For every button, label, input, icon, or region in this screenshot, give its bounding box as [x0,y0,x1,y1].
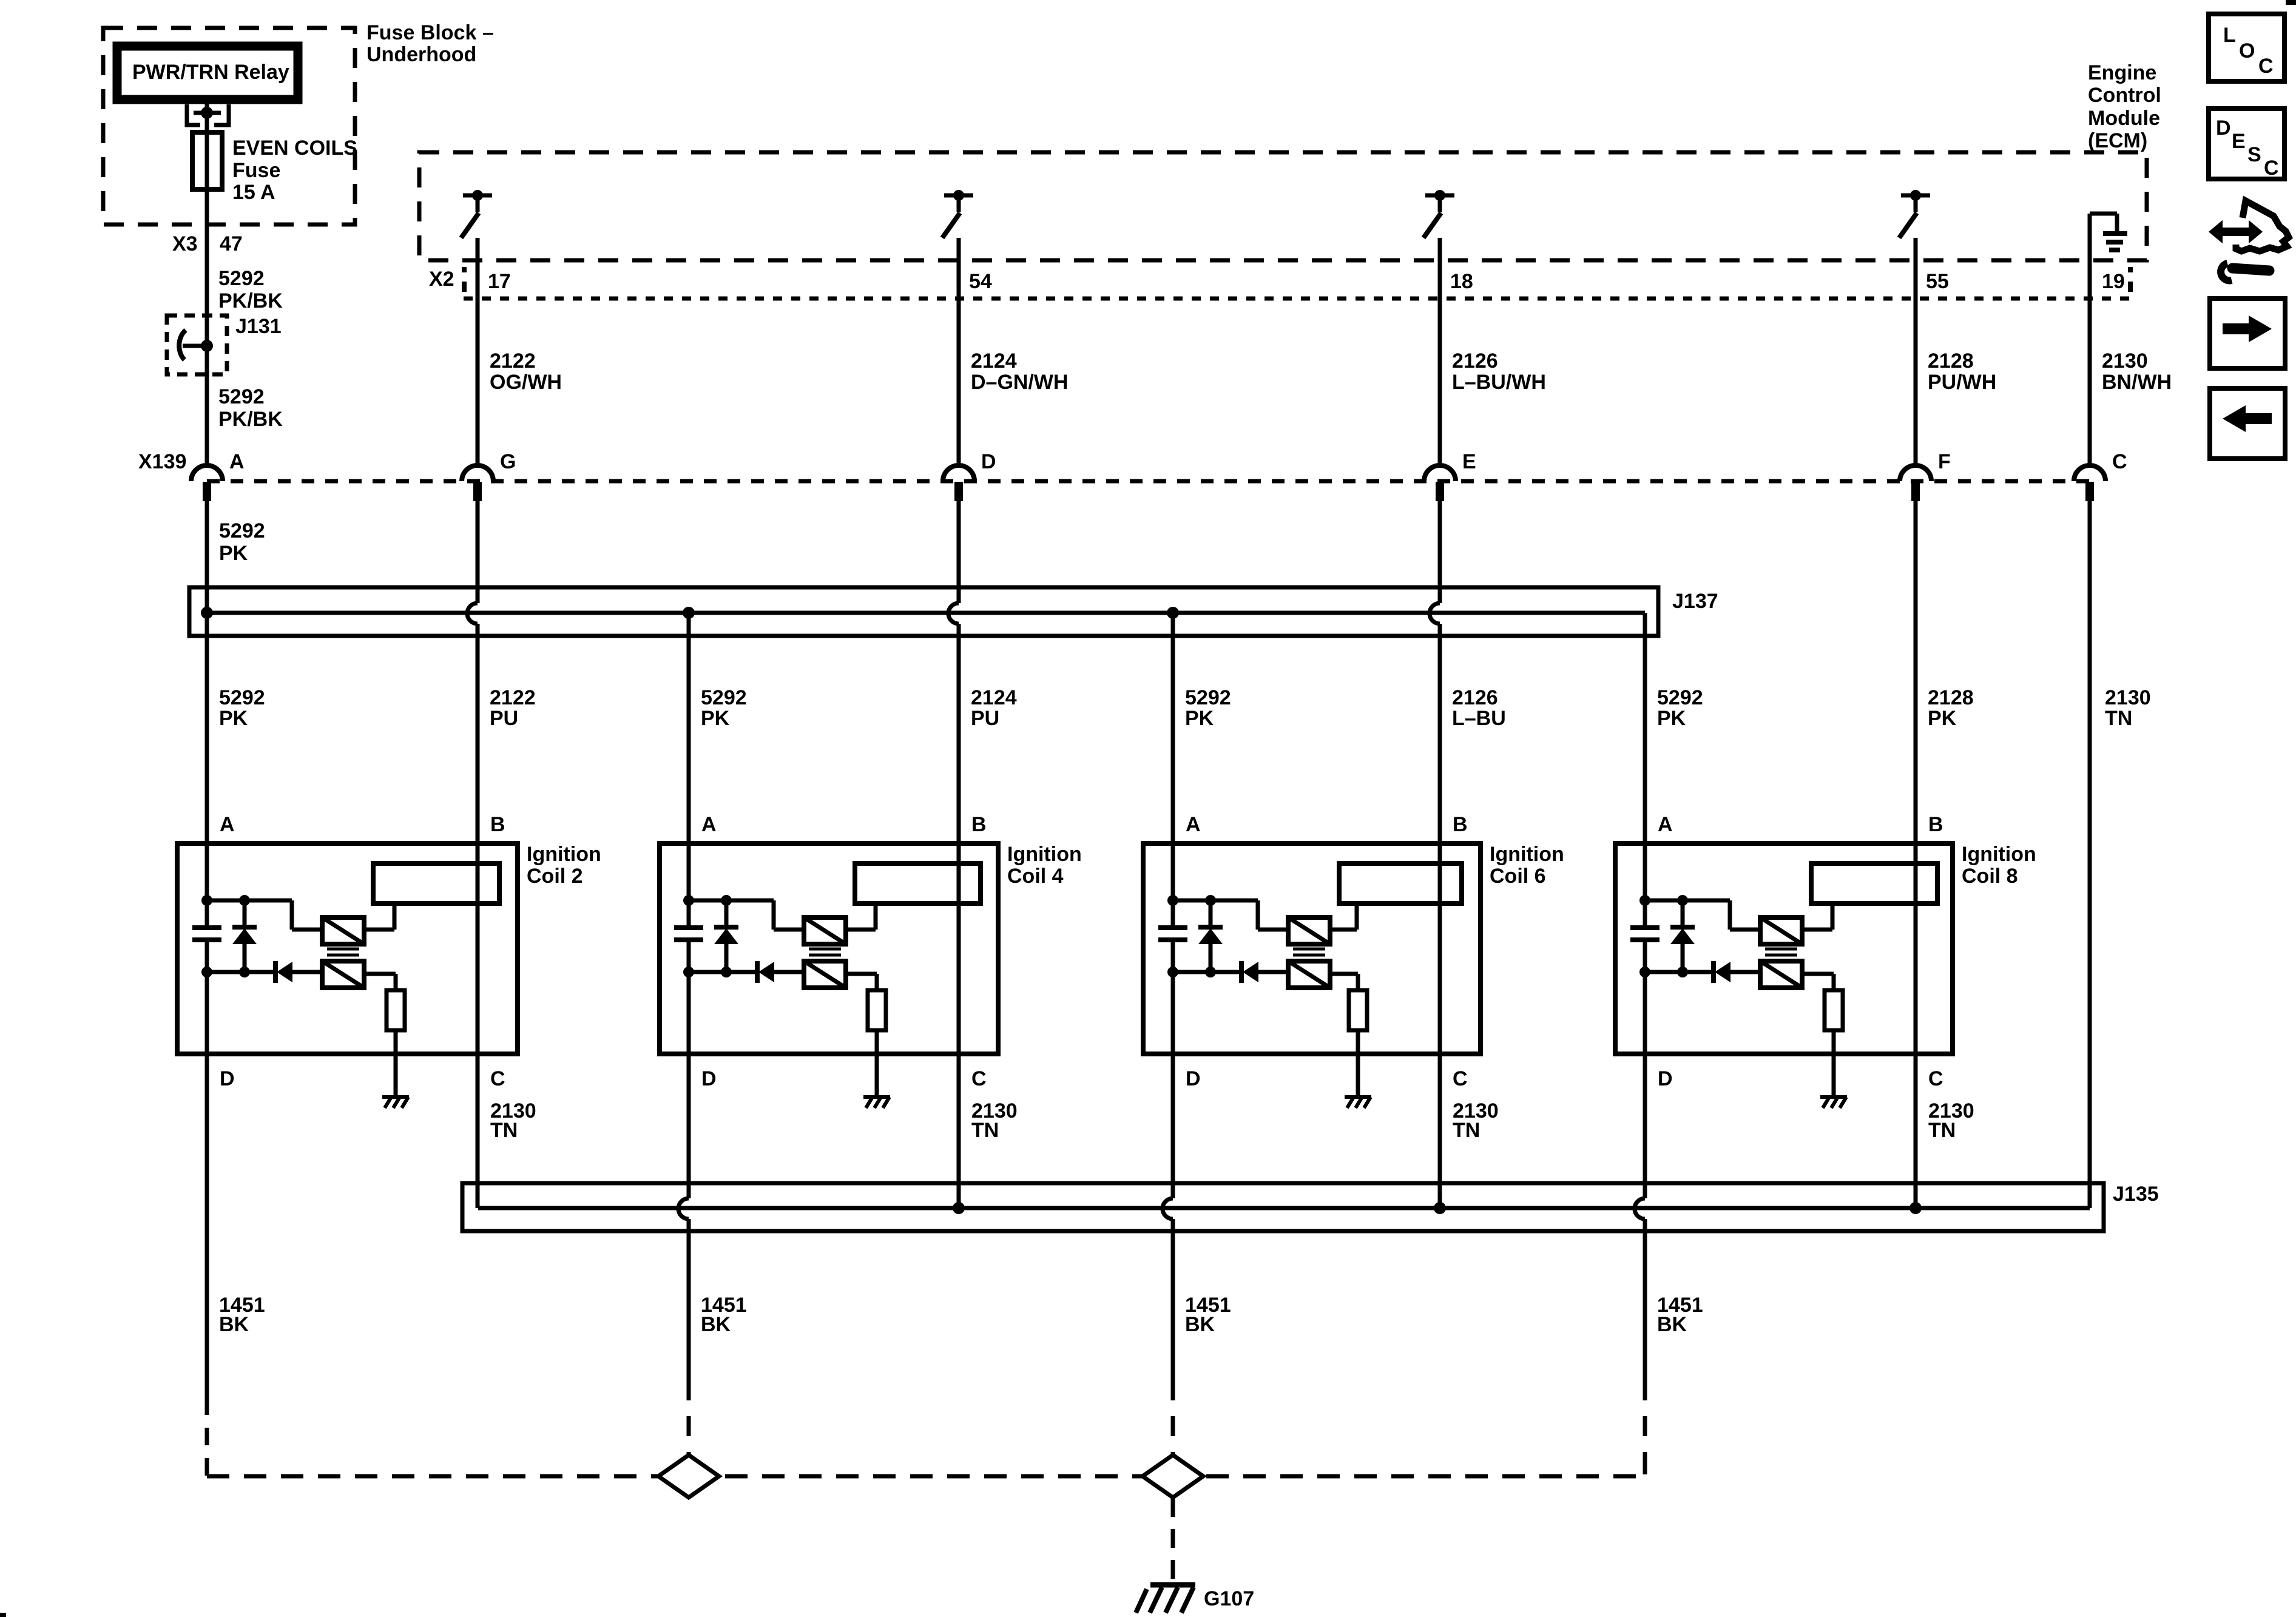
svg-text:PK/BK: PK/BK [218,289,283,312]
svg-text:A: A [229,450,245,473]
svg-text:PU: PU [490,707,518,730]
svg-text:TN: TN [971,1119,999,1142]
connector X139 dotted line [207,479,2090,484]
svg-text:PU: PU [971,707,999,730]
svg-text:2122: 2122 [490,686,536,709]
coil 6 capacitor [1158,925,1187,930]
coil 6 internal wire pin A rail [1171,843,1175,927]
svg-text:TN: TN [2105,707,2132,730]
coil 2 node on A rail (upper) [201,895,212,906]
coil 8 capacitor [1630,925,1660,930]
wire 2130 BN/WH (ECM pin 19 to X139) [2088,214,2092,467]
svg-text:J137: J137 [1672,590,1718,613]
coil 4 wire resistor to ground [875,1030,879,1097]
connector X139 pin D [943,465,974,481]
ignition coil 8 box [1615,843,1953,1054]
coil 6 upper control wire [1173,899,1258,903]
connector X2 end ticks (right) [2128,267,2133,272]
connector X139 pin C [2074,465,2105,481]
svg-text:C: C [2264,157,2279,180]
svg-text:J131: J131 [235,315,282,338]
node: J135 tap coil 8 pin C [1909,1202,1922,1214]
coil 8 primary coil winding box [1811,863,1937,903]
svg-text:L: L [2223,24,2236,47]
svg-text:2126: 2126 [1452,349,1498,373]
coil 2 wire lower winding to resistor [364,972,396,976]
svg-text:A: A [701,813,717,836]
svg-text:PK: PK [219,707,248,730]
svg-text:EVEN COILS: EVEN COILS [232,137,357,160]
connector X2 dotted line [464,297,2131,301]
wire crossing J137 (hop) [957,499,961,603]
splice pack J135 housing [462,1183,2104,1231]
svg-text:15 A: 15 A [232,181,275,204]
svg-text:C: C [490,1067,505,1090]
splice pack J135 bus bar [478,1206,2090,1210]
splice diamond S2 (1451 BK) [1143,1455,1203,1497]
svg-text:Module: Module [2088,107,2160,130]
coil 8 upper control wire [1645,899,1730,903]
coil 4 capacitor [674,925,703,930]
page corner mark top-right [2286,0,2296,5]
coil 8 winding core lines [1765,948,1797,951]
wire 2130 TN (coil 4 pin C to J135) [957,1054,961,1208]
svg-text:2130: 2130 [2105,686,2151,709]
wire 2130 TN (coil 2 pin C to J135) [476,1054,480,1208]
relay pin terminal bracket [187,104,200,125]
svg-text:47: 47 [220,232,243,255]
coil 2 ground symbol [382,1095,409,1099]
driver switch Q4 in ECM (ignition control coil 8) [1901,194,1930,198]
svg-text:BK: BK [701,1313,731,1336]
svg-text:(ECM): (ECM) [2088,129,2147,152]
svg-text:PWR/TRN Relay: PWR/TRN Relay [132,61,289,84]
ground symbol in ECM (pin 19) [2090,212,2117,216]
wire 2122 OG/WH (ECM pin 17 to X139) [476,238,480,467]
wire from relay to fuse [205,100,209,132]
splice pack J137 housing [189,587,1658,636]
svg-text:5292: 5292 [219,686,265,709]
ground G107 symbol [1150,1582,1195,1588]
coil 4 primary coil winding box [855,863,981,903]
page corner mark bottom-left [0,1613,6,1617]
coil 6 diode [1239,961,1244,983]
driver switch Q3 in ECM (ignition control coil 6) [1425,194,1454,198]
svg-text:5292: 5292 [218,385,265,408]
coil 2 resistor [387,990,405,1030]
coil 4 resistor [868,990,886,1030]
svg-text:B: B [1928,813,1943,836]
coil 8 resistor [1825,990,1843,1030]
coil 2 diode [273,961,278,983]
wire 1451 BK (coil 2 pin D to ground splice) [205,1054,209,1397]
svg-text:B: B [1453,813,1468,836]
svg-text:D–GN/WH: D–GN/WH [971,371,1069,394]
coil 8 lower wire with diode [1645,970,1714,974]
node: J135 tap coil 4 pin C [953,1202,965,1214]
wire 5292 PK (X139-A to splice pack J137) [205,499,209,613]
coil 2 upper control wire [207,899,292,903]
wire crossing J137 (hop) [1438,499,1442,603]
wire 2124 D-GN/WH (ECM pin 54 to X139) [957,238,961,467]
node: J137 tap to coil 4 pin A [683,607,695,619]
coil 4 secondary isolator winding (lower) [804,961,846,988]
coil 4 ground symbol [863,1095,890,1099]
fuse block dashed box (Fuse Block - Underhood) [103,28,355,224]
coil 6 node zener top [1205,895,1216,906]
coil 6 zener diode [1209,900,1213,927]
coil 8 wire upper winding to primary coil [1802,928,1832,932]
coil 8 node lower-left [1639,967,1650,977]
svg-text:O: O [2239,39,2255,62]
ignition coil 2 box [177,843,518,1054]
svg-text:Coil 4: Coil 4 [1007,865,1064,888]
wire 5292 PK (J137 to coil 2 pin A) [205,613,209,843]
svg-text:BK: BK [1185,1313,1215,1336]
coil 4 wire upper winding to primary coil [846,928,876,932]
driver switch Q2 in ECM (ignition control coil 4) [944,194,973,198]
svg-text:L–BU/WH: L–BU/WH [1452,371,1546,394]
wire 1451 BK to ground G107 [1171,1498,1175,1579]
coil 6 winding core lines [1293,948,1325,951]
svg-text:5292: 5292 [1657,686,1703,709]
svg-text:19: 19 [2102,270,2125,293]
svg-text:2130: 2130 [2102,349,2148,373]
legend icon forward arrow box [2210,299,2285,368]
coil 2 capacitor [192,925,221,930]
connector X139 pin F [1900,465,1931,481]
ignition coil 4 box [660,843,998,1054]
coil 6 primary isolator winding (upper) [1288,917,1330,944]
svg-text:PK: PK [1657,707,1686,730]
svg-text:PK: PK [1185,707,1214,730]
svg-text:BN/WH: BN/WH [2102,371,2172,394]
svg-text:Ignition: Ignition [1007,843,1082,866]
svg-text:PK: PK [219,542,248,565]
coil 6 ground symbol [1345,1095,1371,1099]
svg-text:C: C [1928,1067,1943,1090]
coil 6 node zener bottom [1205,967,1216,977]
svg-text:2124: 2124 [971,686,1017,709]
svg-text:BK: BK [1657,1313,1687,1336]
wire 2128 (X139-F to coil 8 pin B) [1914,499,1918,843]
coil 8 wire lower winding to resistor [1802,972,1834,976]
svg-text:OG/WH: OG/WH [490,371,562,394]
svg-text:C: C [2258,55,2274,78]
coil 4 winding core lines [809,948,841,951]
svg-text:2124: 2124 [971,349,1017,373]
coil 6 wire lower winding to resistor [1330,972,1358,976]
svg-text:G107: G107 [1204,1587,1254,1610]
wire 5292 PK/BK from fuse to splice J131 [205,189,209,346]
svg-text:5292: 5292 [219,519,265,542]
coil 4 lower wire with diode [689,970,757,974]
wire 1451 BK lower dashed segment at coil 8 column [1643,1454,1647,1476]
coil 6 node on A rail (upper) [1167,895,1178,906]
wire 1451 BK (coil 6 pin D crossing J135 with hop) [1171,1054,1175,1198]
svg-text:Coil 8: Coil 8 [1962,865,2018,888]
coil 6 wire upper winding to primary coil [1330,928,1357,932]
svg-text:C: C [2112,450,2127,473]
coil 2 winding core lines [327,948,359,951]
svg-text:C: C [971,1067,987,1090]
svg-text:PK/BK: PK/BK [218,408,283,431]
svg-text:G: G [500,450,516,473]
coil 4 primary isolator winding (upper) [804,917,846,944]
coil 4 wire lower winding to resistor [846,972,877,976]
svg-text:5292: 5292 [701,686,747,709]
coil 4 node zener top [721,895,732,906]
coil 6 wire resistor to ground [1356,1030,1360,1097]
coil 6 primary coil winding box [1339,863,1462,903]
wire 2130 TN (coil 8 pin C to J135) [1914,1054,1918,1208]
svg-text:X139: X139 [138,450,186,473]
coil 2 wire resistor to ground [394,1030,398,1097]
svg-text:2128: 2128 [1928,686,1974,709]
wire 5292 PK (J137 to coil 8 pin A) [1643,613,1647,843]
coil 8 wire resistor to ground [1832,1030,1836,1097]
coil 4 node on A rail (upper) [683,895,694,906]
svg-text:2122: 2122 [490,349,536,373]
connector X139 pin E [1424,465,1456,481]
splice J131 symbol [201,340,213,352]
wire 1451 BK (coil 8 pin D crossing J135 with hop) [1643,1054,1647,1198]
svg-text:B: B [971,813,987,836]
svg-text:X2: X2 [429,268,454,291]
splice pack J137 bus bar [207,611,1645,615]
node: J137 tap to coil 6 pin A [1167,607,1179,619]
svg-text:2126: 2126 [1452,686,1498,709]
svg-text:2128: 2128 [1928,349,1974,373]
coil 4 node lower-left [683,967,694,977]
svg-text:A: A [1186,813,1201,836]
svg-text:Engine: Engine [2088,61,2156,84]
svg-text:Underhood: Underhood [366,43,476,66]
legend icon back arrow box [2210,388,2285,459]
wire 5292 PK (J137 to coil 6 pin A) [1171,613,1175,843]
svg-text:E: E [1462,450,1476,473]
svg-text:D: D [1658,1067,1673,1090]
wire 2126 L-BU/WH (ECM pin 18 to X139) [1438,238,1442,467]
coil 8 secondary isolator winding (lower) [1760,961,1802,988]
wire 1451 BK (coil 4 pin D crossing J135 with hop) [687,1054,691,1198]
ignition coil 6 box [1143,843,1481,1054]
coil 8 diode [1711,961,1716,983]
coil 2 primary coil winding box [373,863,499,903]
svg-text:S: S [2247,143,2261,166]
ECM dashed box (Engine Control Module) [419,152,2147,260]
svg-text:J135: J135 [2113,1183,2159,1206]
svg-text:D: D [220,1067,235,1090]
coil 8 ground symbol [1820,1095,1847,1099]
coil 4 diode [755,961,760,983]
coil 2 node zener top [239,895,250,906]
svg-text:L–BU: L–BU [1452,707,1506,730]
coil 6 resistor [1349,990,1367,1030]
coil 8 zener diode [1681,900,1685,927]
svg-text:54: 54 [969,270,992,293]
svg-text:5292: 5292 [218,267,265,290]
svg-text:D: D [701,1067,717,1090]
svg-text:PK: PK [701,707,730,730]
coil 6 secondary isolator winding (lower) [1288,961,1330,988]
svg-text:C: C [1453,1067,1468,1090]
wire 2128 PU/WH (ECM pin 55 to X139) [1914,238,1918,467]
node: relay output junction [194,111,221,115]
coil 8 node on A rail (upper) [1639,895,1650,906]
splice diamond S1 (1451 BK) [658,1455,719,1497]
relay K: PWR/TRN Relay [117,46,298,100]
coil 6 lower wire with diode [1173,970,1241,974]
svg-text:5292: 5292 [1185,686,1231,709]
svg-text:Ignition: Ignition [1962,843,2036,866]
coil 2 pin B internal rail [476,843,480,1054]
svg-text:E: E [2232,130,2246,153]
wire 2130 TN (coil 6 pin C to J135) [1438,1054,1442,1208]
svg-text:A: A [1658,813,1673,836]
coil 4 node zener bottom [721,967,732,977]
svg-text:Fuse Block –: Fuse Block – [366,21,494,44]
coil 4 pin B internal rail [957,843,961,1054]
node: J137 tap to coil 2 pin A [201,607,213,619]
svg-text:A: A [220,813,235,836]
svg-text:55: 55 [1926,270,1949,293]
wire 5292 PK/BK from J131 to connector X139 [205,346,209,467]
svg-text:Ignition: Ignition [1490,843,1564,866]
svg-text:18: 18 [1450,270,1473,293]
svg-text:D: D [2216,116,2231,140]
coil 6 node lower-left [1167,967,1178,977]
svg-text:B: B [490,813,505,836]
wire 2130 TN (X139-C to splice pack J135) [2088,499,2092,1208]
coil 4 upper control wire [689,899,774,903]
svg-text:Coil 6: Coil 6 [1490,865,1546,888]
coil 2 secondary isolator winding (lower) [322,961,364,988]
connector X2 end ticks (left) [462,267,467,272]
svg-text:Coil 2: Coil 2 [527,865,583,888]
legend icon DESC box [2209,109,2284,179]
svg-text:17: 17 [488,270,511,293]
svg-text:TN: TN [490,1119,518,1142]
coil 6 pin B internal rail [1438,843,1442,1054]
ground distribution dashed wire (bottom) [207,1474,1645,1479]
coil 4 zener diode [724,900,729,927]
node: J135 tap coil 6 pin C [1434,1202,1446,1214]
coil 2 node lower-left [201,967,212,977]
coil 8 node zener top [1677,895,1688,906]
splice J131 dashed box [167,316,227,374]
svg-text:TN: TN [1453,1119,1480,1142]
fuse F: EVEN COILS Fuse 15 A [192,132,222,189]
coil 8 primary isolator winding (upper) [1760,917,1802,944]
coil 2 zener diode [243,900,247,927]
connector X139 pin G [462,465,493,481]
wire 5292 PK (J137 to coil 4 pin A) [687,613,691,843]
svg-text:D: D [981,450,996,473]
coil 8 internal wire pin A rail [1643,843,1647,927]
svg-text:PU/WH: PU/WH [1928,371,1996,394]
svg-text:BK: BK [219,1313,249,1336]
coil 2 lower wire with diode [207,970,275,974]
driver switch Q1 in ECM (ignition control coil 2) [463,194,492,198]
legend icon connector/wrench [2236,201,2289,251]
coil 2 primary isolator winding (upper) [322,917,364,944]
svg-text:F: F [1938,450,1951,473]
coil 8 pin B internal rail [1914,843,1918,1054]
wire crossing J137 (hop) [476,499,480,603]
svg-text:PK: PK [1928,707,1957,730]
svg-text:D: D [1186,1067,1201,1090]
coil 2 internal wire pin A rail [205,843,209,927]
coil 4 internal wire pin A rail [687,843,691,927]
legend icon LOC box [2209,14,2284,81]
connector X139 pin A [191,465,223,481]
coil 2 node zener bottom [239,967,250,977]
svg-text:X3: X3 [172,232,198,255]
svg-text:Control: Control [2088,84,2161,107]
svg-text:Fuse: Fuse [232,159,280,182]
svg-text:TN: TN [1928,1119,1956,1142]
svg-text:Ignition: Ignition [527,843,601,866]
coil 8 node zener bottom [1677,967,1688,977]
coil 2 wire upper winding to primary coil [364,928,394,932]
